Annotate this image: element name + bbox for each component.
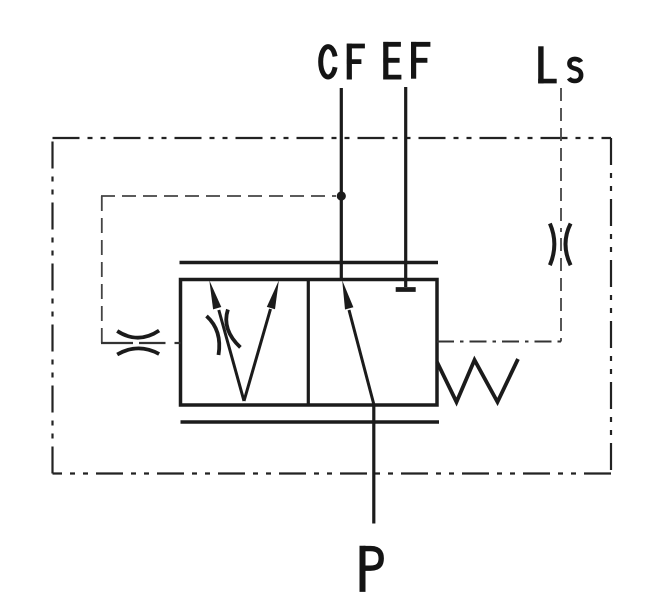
wire EF line: [404, 87, 407, 287]
flow arrow P to CF (right chamber): [342, 280, 374, 405]
port label CF: [321, 44, 365, 80]
flow arrow V left branch (to CF): [209, 280, 244, 401]
pilot line through left orifice: [101, 342, 181, 344]
pilot line Ls to spring chamber (dash-dot): [437, 341, 561, 343]
lower body line: [181, 420, 440, 423]
enclosure boundary (dash-dot block outline): [53, 138, 612, 474]
orifice Ls (fixed restrictor on Ls line): [550, 224, 571, 266]
variable orifice arcs on left branch: [207, 310, 241, 356]
pilot line Ls vertical (dashed): [560, 88, 562, 342]
flow arrow V right branch: [244, 280, 279, 401]
pilot line CF to left orifice (dashed): [101, 196, 336, 343]
blocked port EF T-bar: [396, 287, 416, 292]
junction dot: [337, 191, 346, 200]
wire CF line: [340, 88, 343, 280]
valve body: [181, 280, 438, 406]
upper body line: [180, 261, 439, 264]
port label P: [363, 546, 382, 592]
valve spool divider: [307, 280, 310, 406]
port label Ls: [538, 46, 581, 83]
orifice left (fixed restrictor on pilot line): [117, 331, 159, 355]
wire P line: [372, 405, 375, 524]
spring: [437, 359, 518, 402]
port label EF: [383, 42, 430, 80]
